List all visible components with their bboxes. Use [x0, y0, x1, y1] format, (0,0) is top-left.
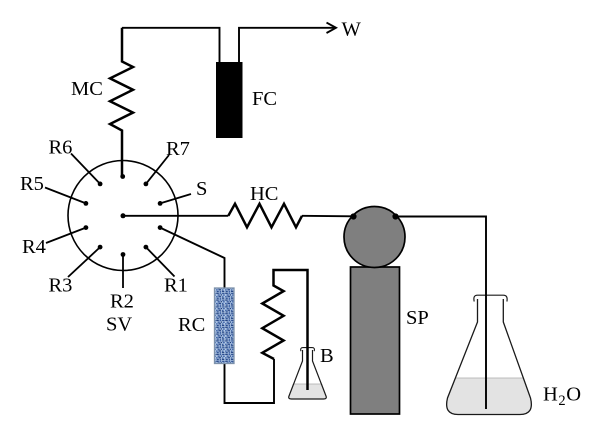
port dot R6 — [98, 182, 103, 187]
svg-text:SP: SP — [406, 307, 429, 329]
svg-text:W: W — [342, 19, 362, 41]
tick line R2 — [122, 255, 124, 289]
port dot top — [120, 174, 125, 179]
flask B liquid — [289, 384, 327, 399]
tick line R7 — [146, 155, 169, 184]
svg-text:S: S — [196, 178, 207, 200]
tick line R3 — [68, 247, 100, 277]
syringe pump valve head SP — [344, 207, 405, 268]
arrowhead W — [327, 23, 337, 33]
flask B outline — [289, 350, 327, 399]
port dot R4 — [84, 225, 89, 230]
svg-text:HC: HC — [250, 183, 278, 205]
flask H2O outline — [447, 299, 532, 415]
tick line R6 — [71, 154, 100, 184]
svg-text:MC: MC — [71, 78, 103, 100]
tick line R5 — [45, 188, 86, 204]
flask H2O liquid — [447, 378, 532, 415]
svg-text:R1: R1 — [164, 275, 188, 297]
flask B lip — [301, 348, 315, 352]
svg-text:RC: RC — [178, 314, 205, 336]
svg-text:R5: R5 — [20, 173, 44, 195]
tick line R4 — [46, 228, 86, 243]
port dot R3 — [98, 245, 103, 250]
coil to flask B — [262, 270, 307, 390]
reagent line valve to RC — [160, 228, 274, 403]
svg-text:R2: R2 — [110, 291, 134, 313]
junction dot right — [392, 213, 398, 219]
port dot R5 — [84, 201, 89, 206]
center port dot — [121, 213, 126, 218]
tick line S — [160, 194, 191, 203]
reaction column RC — [215, 288, 235, 364]
wire SP to H2O flask — [396, 217, 487, 410]
port dot R2 — [121, 252, 126, 257]
svg-text:R3: R3 — [49, 275, 73, 297]
mixing coil MC — [110, 28, 133, 177]
flask H2O lip — [474, 295, 507, 301]
wire from FC to W arrow — [239, 28, 334, 62]
syringe pump barrel SP — [351, 267, 400, 414]
junction dot left — [350, 213, 356, 219]
wire from MC top to FC — [122, 28, 220, 62]
port dot R1 — [144, 245, 149, 250]
svg-text:SV: SV — [106, 314, 132, 336]
svg-text:FC: FC — [252, 88, 277, 110]
svg-text:R6: R6 — [49, 137, 73, 159]
svg-text:R4: R4 — [22, 236, 46, 258]
svg-text:R7: R7 — [166, 138, 190, 160]
port dot RC-line — [158, 225, 163, 230]
wire HC to SP — [302, 215, 354, 218]
flow cell FC — [216, 62, 243, 138]
holding coil HC — [228, 204, 302, 228]
tick line R1 — [146, 247, 175, 276]
port dot R7 — [144, 182, 149, 187]
selection valve SV body — [68, 161, 178, 271]
svg-text:B: B — [320, 345, 334, 367]
port dot S — [158, 201, 163, 206]
wire center to HC — [123, 215, 228, 217]
